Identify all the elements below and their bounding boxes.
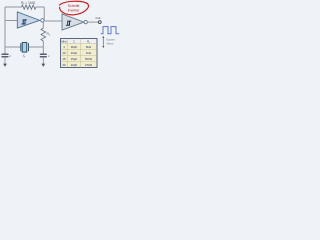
svg-text:Wave: Wave (107, 42, 114, 46)
svg-text:20: 20 (62, 63, 66, 67)
svg-text:5kΩ: 5kΩ (86, 45, 92, 49)
resistor Rf (22, 5, 37, 9)
inverter U1 triangle (17, 12, 39, 28)
table header row (61, 39, 97, 44)
wire below C2 (42, 57, 44, 64)
red annotation oval (59, 1, 88, 15)
output terminal (98, 21, 101, 24)
svg-text:22pF: 22pF (71, 51, 78, 55)
svg-text:MHz: MHz (61, 40, 67, 44)
svg-text:Out: Out (96, 16, 101, 20)
wire U2 output (87, 21, 98, 23)
crystal XT body (22, 43, 27, 53)
svg-text:Rf = 1MΩ: Rf = 1MΩ (21, 1, 36, 6)
wire crystal branch left (5, 46, 21, 48)
wire left cap stem (4, 47, 6, 54)
svg-text:30pF: 30pF (71, 45, 78, 49)
table frame (61, 39, 98, 68)
U2 output bubble (84, 20, 87, 23)
wire below C1 (4, 57, 6, 64)
wire left vertical (4, 7, 6, 47)
wire feedback vertical drop (43, 7, 45, 21)
svg-text:Xt: Xt (23, 54, 26, 59)
capacitor C2 (40, 54, 47, 57)
svg-text:10: 10 (62, 51, 66, 55)
ground left arrow (3, 64, 7, 67)
svg-text:15: 15 (62, 57, 66, 61)
svg-text:Square: Square (106, 37, 115, 41)
svg-text:15pF: 15pF (71, 57, 78, 61)
capacitor C1 (2, 54, 9, 57)
wire top feedback right segment (36, 6, 44, 8)
square wave trace (101, 27, 119, 34)
crystal XT right plate (28, 43, 30, 51)
resistor Rs (41, 28, 46, 41)
svg-text:C: C (73, 40, 75, 44)
U1 hysteresis glyph (22, 20, 27, 24)
U2 hysteresis glyph (66, 21, 71, 25)
wire U1 output to U2 input (44, 20, 62, 22)
svg-text:Schmitt: Schmitt (68, 4, 80, 8)
wire input stub (5, 20, 17, 22)
svg-text:500Ω: 500Ω (85, 57, 93, 61)
svg-text:270Ω: 270Ω (85, 63, 93, 67)
crystal XT left plate (20, 43, 22, 51)
inverter U2 triangle (62, 14, 84, 30)
wire Rs drop upper (42, 21, 44, 28)
svg-text:Inverter: Inverter (68, 8, 81, 12)
wire crystal branch right (29, 46, 44, 48)
wire Rs drop lower (42, 41, 44, 47)
table grid (68, 39, 81, 68)
wire top feedback left segment (5, 6, 22, 8)
amplitude double arrow (102, 38, 104, 47)
svg-text:1kΩ: 1kΩ (86, 51, 92, 55)
wire right cap stem (42, 47, 44, 54)
ground right arrow (41, 64, 45, 67)
U1 output bubble (41, 19, 44, 22)
svg-text:10pF: 10pF (71, 63, 78, 67)
